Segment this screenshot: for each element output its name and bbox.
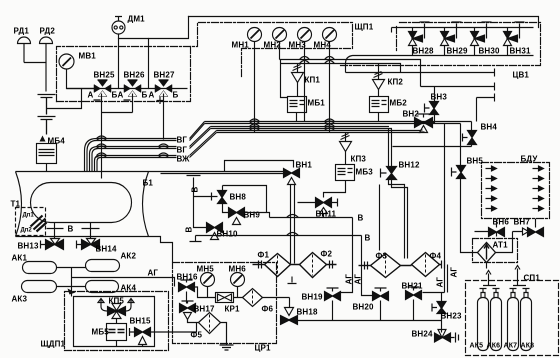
valve ВН17 — [180, 301, 196, 320]
membrane block МБ1 — [288, 97, 307, 122]
svg-text:А: А — [88, 91, 94, 100]
svg-text:МН3: МН3 — [289, 41, 307, 50]
svg-text:ВН9: ВН9 — [244, 211, 261, 220]
wire ВН16 out — [187, 287, 216, 304]
svg-text:ДМ1: ДМ1 — [128, 15, 146, 24]
svg-text:Ф4: Ф4 — [430, 252, 442, 261]
svg-text:Ф6: Ф6 — [262, 305, 274, 314]
svg-text:ВН21: ВН21 — [402, 282, 423, 291]
gauge МН5 — [201, 273, 215, 298]
svg-text:КП3: КП3 — [351, 155, 367, 164]
svg-text:ЩДП1: ЩДП1 — [41, 340, 66, 349]
wire bus y56 — [280, 42, 421, 87]
svg-text:ЦР1: ЦР1 — [255, 344, 271, 353]
enclosure БДУ dash-dot box — [482, 163, 550, 219]
wire band pair2 y126/128 — [211, 127, 393, 129]
valve ВН25 (4-way cross) — [94, 80, 111, 97]
membrane block МБ5 — [107, 319, 127, 347]
wire АТ1 right to ВН7 — [496, 228, 529, 253]
svg-text:ВН7: ВН7 — [514, 218, 531, 227]
svg-text:МН4: МН4 — [314, 41, 332, 50]
svg-text:Ф2: Ф2 — [321, 250, 333, 259]
svg-text:Б1: Б1 — [143, 179, 154, 188]
receiver АК4 — [86, 281, 119, 293]
wire ВН9 to bus1 — [245, 213, 270, 218]
svg-text:В: В — [365, 234, 371, 243]
vacuum gauge МВ1 — [59, 54, 95, 89]
svg-text:АК5: АК5 — [470, 343, 484, 350]
vessel Б1 outer dewar — [16, 172, 173, 263]
cylinder АК6 — [491, 289, 502, 351]
wire ВГ1 bus — [97, 122, 205, 141]
svg-text:БДУ: БДУ — [521, 155, 539, 164]
svg-text:ВГ: ВГ — [177, 146, 188, 155]
svg-text:ВН4: ВН4 — [481, 123, 498, 132]
svg-text:ВН5: ВН5 — [467, 157, 484, 166]
valve ВН11 — [316, 198, 338, 214]
vent symbol above ВН8 — [187, 176, 201, 197]
valve ВН12 — [381, 167, 397, 180]
svg-text:АГ: АГ — [436, 277, 445, 288]
svg-text:В: В — [185, 227, 194, 233]
cylinder АК5 — [478, 289, 489, 351]
filter Ф4 — [401, 253, 445, 277]
wire ВН15 links — [143, 323, 197, 347]
svg-text:ВН10: ВН10 — [217, 230, 238, 239]
filter Ф5 — [188, 313, 227, 345]
svg-text:МН1: МН1 — [232, 41, 250, 50]
valve ВН26 (4-way cross) — [124, 80, 141, 97]
cylinder АК7 — [508, 289, 519, 351]
filter Ф1 — [253, 254, 291, 277]
svg-text:ВН2: ВН2 — [403, 110, 420, 119]
wire bus В2 y235 — [196, 235, 362, 237]
БДУ arrows right column — [533, 166, 544, 211]
svg-text:ВН8: ВН8 — [230, 193, 247, 202]
svg-text:ВН29: ВН29 — [447, 47, 468, 56]
svg-text:РД2: РД2 — [40, 27, 56, 36]
wire ВН25/26 bottom join — [102, 94, 133, 113]
svg-text:АК7: АК7 — [504, 343, 518, 350]
valve ВН3 — [425, 102, 439, 115]
svg-text:Дп1: Дп1 — [23, 213, 35, 219]
svg-text:МВ1: МВ1 — [79, 52, 97, 61]
svg-text:ВН13: ВН13 — [18, 242, 39, 251]
wire bus bends into tank — [85, 139, 101, 172]
gauge МН3 — [298, 28, 312, 122]
valve ВН16 — [179, 280, 195, 292]
wire РД join — [24, 63, 46, 92]
enclosure ЩДП1 dash-dot box — [65, 292, 169, 351]
svg-text:ВН30: ВН30 — [479, 47, 500, 56]
valve ВН27 (4-way cross) — [155, 80, 172, 97]
svg-text:МН5: МН5 — [197, 265, 215, 274]
gauge МН6 — [231, 273, 245, 298]
svg-text:СП1: СП1 — [524, 274, 541, 283]
membrane block МБ2 — [370, 97, 389, 122]
svg-text:ВН18: ВН18 — [297, 308, 318, 317]
heat exchanger АТ1 — [478, 243, 496, 263]
valve ВН20 — [373, 288, 389, 321]
receiver АК2 — [86, 260, 120, 272]
svg-text:А: А — [149, 91, 155, 100]
junction arrow at АК node — [68, 289, 76, 295]
wire ВН5 links — [461, 124, 478, 253]
wire line y78 with tick — [346, 69, 495, 77]
svg-text:АГ: АГ — [450, 267, 459, 278]
svg-text:ВН19: ВН19 — [302, 293, 323, 302]
valve ВН8 — [212, 191, 227, 204]
valve ВН7 — [528, 225, 544, 237]
valve ВН2 (3-way on band) — [415, 114, 433, 133]
svg-text:Т1: Т1 — [11, 200, 21, 209]
wire ВН4 links — [393, 122, 472, 147]
gauge МН1 — [248, 28, 262, 133]
filter Ф6 — [234, 289, 290, 307]
filter Ф3 — [359, 254, 401, 278]
valve ВН4 — [463, 131, 477, 145]
svg-text:ВН1: ВН1 — [296, 161, 313, 170]
svg-text:АК4: АК4 — [121, 284, 137, 293]
valve ВН1 — [284, 169, 300, 185]
svg-text:В: В — [358, 214, 364, 223]
wire ВН1 drop double — [291, 185, 295, 264]
wire ВГ2 bus — [99, 127, 211, 149]
valve ВН28 (angle w/ handle) — [409, 22, 430, 56]
valve ВН6 — [489, 225, 505, 237]
sensor Дп1/Дп2 — [31, 216, 47, 232]
svg-text:Б: Б — [173, 91, 179, 100]
regulator КР1 — [216, 293, 234, 303]
svg-text:ЩП1: ЩП1 — [355, 23, 374, 32]
wire ВН26 top feed — [148, 39, 150, 89]
svg-text:ВН25: ВН25 — [94, 71, 115, 80]
panel ЩДП1 inner loop — [74, 297, 155, 347]
wire ВН27 drop to ВГ bus — [163, 94, 165, 140]
wire АГ right verticals — [423, 124, 448, 293]
connector plates under РД — [38, 95, 56, 135]
svg-text:ВН11: ВН11 — [316, 210, 337, 219]
svg-text:МБ3: МБ3 — [356, 168, 374, 177]
enclosure СП1 dashed box — [466, 281, 559, 356]
wire ДМ1 bus y38 — [119, 17, 189, 39]
membrane block МБ4 — [40, 136, 46, 142]
valve ВН30 — [471, 22, 492, 56]
receiver АК3 — [22, 281, 57, 293]
wire bus hop arcs over ВН1 drop — [287, 215, 299, 236]
wire band pair1 y121/123 — [205, 122, 472, 124]
svg-text:В: В — [68, 225, 74, 234]
БДУ arrows left column — [486, 166, 497, 211]
wire МВ1 bus link y108 — [47, 89, 82, 109]
wire line y87 with tick — [421, 83, 495, 122]
safety valve КП1 — [292, 64, 304, 97]
wire Ф1/Ф2 junction drain — [288, 277, 297, 284]
svg-text:В: В — [191, 187, 200, 193]
svg-text:ВН23: ВН23 — [441, 312, 462, 321]
wire bus В1 y217 — [270, 217, 353, 219]
svg-text:Дп2: Дп2 — [21, 228, 33, 234]
svg-text:ВН15: ВН15 — [130, 317, 151, 326]
svg-text:ВН16: ВН16 — [177, 273, 198, 282]
svg-text:Ф5: Ф5 — [191, 331, 203, 340]
svg-text:Б: Б — [142, 91, 148, 100]
svg-text:АГ: АГ — [354, 274, 363, 285]
wire ВН2 bottom pipe — [421, 130, 425, 133]
svg-text:ВГ: ВГ — [177, 136, 188, 145]
valve ВН5 — [452, 166, 466, 179]
svg-text:АК3: АК3 — [12, 295, 28, 304]
wire ДМ1 stem — [118, 35, 120, 89]
svg-text:АГ: АГ — [345, 274, 354, 285]
vent В under tank — [47, 223, 100, 239]
wire bus y62 — [281, 60, 401, 98]
wire ВН25 drop to tank — [101, 113, 103, 179]
wire СП1 manifold arrows — [483, 263, 526, 286]
gauge ДМ1 — [112, 17, 125, 35]
svg-text:МН6: МН6 — [229, 265, 247, 274]
wire hop arcs on ВГ buses — [97, 136, 169, 158]
svg-text:ВН17: ВН17 — [194, 305, 215, 314]
wire top main y16 — [189, 17, 539, 28]
enclosure ЦВ1 dash-dot box (top right) — [341, 23, 541, 66]
valve ВН15 — [130, 328, 151, 345]
svg-text:АТ1: АТ1 — [493, 241, 509, 250]
gauge МН2 — [273, 28, 287, 42]
vessel Б1 inner tank — [31, 183, 132, 223]
wire ВН28-31 top bus y27 — [392, 27, 534, 29]
svg-text:АК1: АК1 — [12, 254, 28, 263]
receiver АК1 — [23, 262, 57, 274]
svg-text:ВН20: ВН20 — [353, 303, 374, 312]
svg-text:КП2: КП2 — [388, 78, 404, 87]
valve ВН31 — [504, 22, 525, 56]
wire valve row bus y88 — [67, 88, 188, 90]
svg-text:РД1: РД1 — [14, 27, 30, 36]
wire main bottom bus y319.5 — [298, 320, 442, 322]
svg-text:ВН14: ВН14 — [96, 245, 117, 254]
enclosure АТ1 dash-dot box — [473, 239, 518, 263]
wire ВЖ bus — [101, 131, 217, 158]
svg-text:МБ1: МБ1 — [308, 99, 326, 108]
svg-text:ВН24: ВН24 — [412, 330, 433, 339]
svg-text:ВН3: ВН3 — [431, 93, 448, 102]
svg-text:АК2: АК2 — [121, 252, 137, 261]
valve ВН19 — [325, 288, 341, 321]
wire ВН1 top loop — [225, 161, 294, 172]
svg-text:КР1: КР1 — [225, 305, 241, 314]
svg-text:КП1: КП1 — [305, 76, 321, 85]
svg-text:МН2: МН2 — [264, 41, 282, 50]
svg-text:ВН12: ВН12 — [399, 161, 420, 170]
safety valve КП3 — [340, 133, 352, 165]
valve ВН24 — [435, 330, 459, 343]
relief valve КП5 — [98, 299, 134, 319]
svg-text:АК8: АК8 — [521, 343, 535, 350]
wire ВН28-31 bottom bus y49 — [346, 28, 534, 73]
sensor box Т1 — [16, 208, 46, 236]
wire АК connectors — [57, 268, 86, 297]
ground symbol under Ф5 — [220, 345, 234, 350]
wire ВН8 loop — [223, 186, 267, 213]
wire hop arcs — [250, 57, 335, 131]
svg-text:Ф1: Ф1 — [258, 251, 270, 260]
valve ВН18 — [281, 308, 298, 325]
wire ВН12 pipe down — [389, 129, 392, 167]
vent symbol at В2 left end — [190, 236, 202, 242]
wire pipe to ВН1 double — [149, 172, 286, 174]
svg-text:АГ: АГ — [148, 269, 159, 278]
enclosure ЦР1 dash-dot box — [173, 263, 277, 344]
cylinder АК8 — [521, 289, 532, 351]
svg-text:КП5: КП5 — [109, 297, 125, 306]
wire Ф6 to ВН18 — [289, 298, 291, 308]
valve ВН9 — [229, 208, 245, 225]
enclosure ЩП1 dash-dot box (left part around МВ1/ВН25-27) — [57, 23, 353, 102]
wire АГ vent drops to ВН19/ВН20 — [341, 218, 374, 296]
valve ВН21 — [406, 287, 422, 321]
safety valve КП2 — [373, 64, 385, 97]
svg-text:ЦВ1: ЦВ1 — [513, 71, 530, 80]
svg-text:А: А — [118, 91, 124, 100]
svg-text:ВН31: ВН31 — [510, 47, 531, 56]
svg-text:МБ5: МБ5 — [92, 328, 110, 337]
pressure switch РД1 — [18, 37, 31, 62]
wire ВН6 links — [475, 219, 536, 232]
filter Ф2 — [291, 253, 337, 278]
wire ВН11 links — [298, 203, 324, 218]
svg-text:ВН27: ВН27 — [154, 71, 175, 80]
wire АГ main line — [72, 278, 175, 287]
valve ВН10 — [207, 223, 223, 240]
wire side line x379 — [379, 185, 381, 251]
svg-text:АК6: АК6 — [487, 343, 501, 350]
svg-text:ВН6: ВН6 — [493, 218, 510, 227]
valve ВН29 — [441, 22, 462, 56]
svg-text:МБ2: МБ2 — [390, 99, 408, 108]
valve ВН14 — [77, 239, 100, 250]
svg-text:Ф3: Ф3 — [376, 252, 388, 261]
svg-text:ВН26: ВН26 — [124, 71, 145, 80]
wire ВН3 links — [433, 87, 435, 123]
svg-text:ВЖ: ВЖ — [177, 155, 191, 164]
wire band pair3 y129.5/131.5 — [217, 131, 421, 133]
svg-text:ВН28: ВН28 — [413, 47, 434, 56]
pressure switch РД2 — [40, 37, 53, 62]
gauge МН4 — [323, 28, 337, 133]
wire vent vertical x193 — [194, 197, 212, 228]
valve ВН23 — [432, 293, 446, 333]
membrane block МБ3 — [324, 165, 355, 198]
valve ВН13 — [41, 239, 64, 250]
